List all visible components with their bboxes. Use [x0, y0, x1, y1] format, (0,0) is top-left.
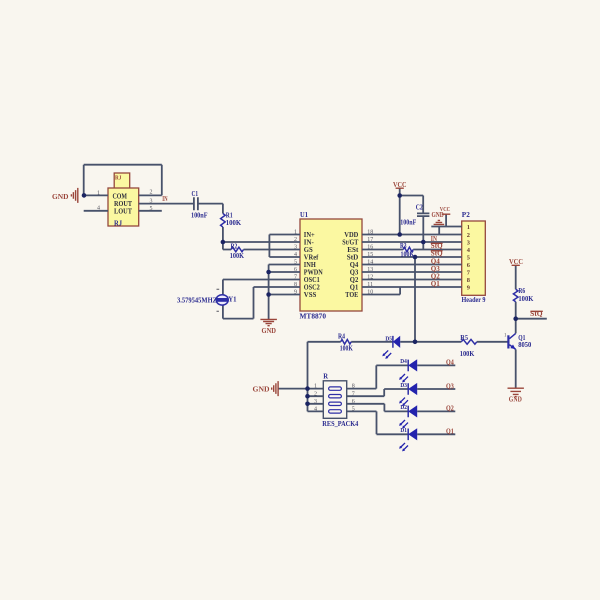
- svg-text:8: 8: [294, 282, 297, 288]
- svg-text:2: 2: [294, 237, 297, 243]
- svg-text:IN-: IN-: [304, 239, 315, 246]
- svg-text:GND: GND: [432, 212, 444, 219]
- svg-text:Q3: Q3: [350, 269, 359, 276]
- svg-text:MT8870: MT8870: [300, 312, 327, 320]
- svg-text:VCC: VCC: [440, 206, 450, 213]
- svg-text:15: 15: [367, 252, 373, 258]
- svg-text:1: 1: [97, 190, 100, 196]
- svg-text:3: 3: [294, 245, 297, 251]
- svg-text:U1: U1: [300, 211, 308, 219]
- svg-text:D5: D5: [385, 335, 392, 342]
- svg-text:6: 6: [294, 267, 297, 273]
- svg-text:TOE: TOE: [345, 292, 358, 299]
- svg-text:Q3: Q3: [431, 266, 441, 273]
- svg-text:ESt: ESt: [347, 247, 359, 254]
- svg-text:Q1: Q1: [350, 284, 359, 291]
- svg-text:Q3: Q3: [446, 383, 454, 390]
- svg-text:2: 2: [314, 391, 317, 397]
- svg-text:2: 2: [467, 232, 470, 239]
- svg-text:9: 9: [294, 290, 297, 296]
- svg-text:5: 5: [150, 206, 153, 212]
- svg-text:D2: D2: [400, 404, 407, 411]
- svg-text:12: 12: [367, 275, 373, 281]
- svg-text:RJ: RJ: [114, 219, 122, 227]
- svg-text:18: 18: [367, 230, 373, 236]
- svg-text:100K: 100K: [518, 296, 534, 303]
- svg-text:8: 8: [352, 384, 355, 390]
- svg-text:St/GT: St/GT: [342, 239, 358, 246]
- svg-text:INH: INH: [304, 262, 317, 269]
- svg-text:StQ: StQ: [431, 251, 443, 258]
- svg-text:StQ: StQ: [431, 243, 443, 250]
- svg-text:4: 4: [314, 407, 317, 413]
- svg-text:16: 16: [367, 245, 373, 251]
- svg-text:IN: IN: [431, 236, 437, 243]
- svg-text:IN: IN: [162, 196, 167, 203]
- svg-text:R4: R4: [338, 334, 346, 341]
- svg-text:VCC: VCC: [393, 181, 407, 189]
- svg-text:GS: GS: [304, 247, 313, 254]
- svg-text:100nF: 100nF: [400, 220, 416, 227]
- svg-text:5: 5: [294, 260, 297, 266]
- svg-text:17: 17: [367, 237, 373, 243]
- svg-text:1: 1: [314, 384, 317, 390]
- svg-text:Q2: Q2: [446, 406, 454, 413]
- svg-text:VSS: VSS: [304, 292, 317, 299]
- svg-text:100K: 100K: [340, 345, 354, 352]
- svg-text:11: 11: [367, 282, 373, 288]
- svg-text:1: 1: [467, 224, 470, 231]
- svg-text:4: 4: [294, 252, 297, 258]
- svg-text:PWDN: PWDN: [304, 269, 323, 276]
- svg-text:C1: C1: [192, 191, 199, 198]
- svg-text:10: 10: [367, 290, 373, 296]
- svg-text:8050: 8050: [518, 341, 531, 349]
- svg-text:5: 5: [352, 407, 355, 413]
- svg-text:13: 13: [367, 267, 373, 273]
- svg-text:2: 2: [150, 190, 153, 196]
- svg-text:OSC1: OSC1: [304, 277, 321, 284]
- svg-text:1: 1: [294, 230, 297, 236]
- svg-text:R5: R5: [460, 335, 468, 342]
- svg-text:D1: D1: [400, 427, 407, 434]
- svg-text:100K: 100K: [230, 253, 245, 260]
- svg-text:3.579545MHZ: 3.579545MHZ: [177, 297, 217, 305]
- svg-text:Q1: Q1: [431, 281, 441, 288]
- svg-text:Q4: Q4: [446, 360, 454, 367]
- svg-text:4: 4: [97, 206, 100, 212]
- svg-text:RJ: RJ: [115, 174, 122, 181]
- svg-text:R3: R3: [400, 243, 407, 250]
- svg-text:100nF: 100nF: [191, 212, 208, 219]
- svg-text:100K: 100K: [460, 351, 475, 358]
- svg-text:3: 3: [314, 399, 317, 405]
- svg-text:R1: R1: [226, 213, 233, 220]
- svg-text:IN+: IN+: [304, 232, 315, 239]
- svg-text:VRef: VRef: [304, 254, 319, 261]
- svg-text:RES_PACK4: RES_PACK4: [322, 420, 358, 428]
- svg-text:Q4: Q4: [431, 258, 441, 265]
- svg-text:StQ: StQ: [530, 311, 542, 318]
- svg-text:GND: GND: [509, 395, 522, 403]
- svg-text:VDD: VDD: [344, 232, 358, 239]
- svg-text:100K: 100K: [226, 220, 242, 227]
- svg-text:Q4: Q4: [350, 262, 359, 269]
- svg-text:R6: R6: [518, 288, 525, 295]
- svg-text:7: 7: [294, 275, 297, 281]
- svg-text:14: 14: [367, 260, 373, 266]
- svg-text:GND: GND: [52, 193, 69, 201]
- svg-text:5: 5: [467, 254, 470, 261]
- svg-text:Y1: Y1: [228, 296, 237, 304]
- svg-text:3: 3: [150, 198, 153, 204]
- svg-text:LOUT: LOUT: [114, 208, 132, 216]
- svg-text:OSC2: OSC2: [304, 284, 321, 291]
- svg-text:D3: D3: [400, 382, 407, 389]
- svg-text:D4: D4: [400, 358, 407, 365]
- svg-text:VCC: VCC: [509, 258, 523, 266]
- svg-text:9: 9: [467, 284, 470, 291]
- svg-text:3: 3: [467, 239, 470, 246]
- svg-text:C2: C2: [416, 205, 424, 212]
- svg-text:7: 7: [352, 391, 355, 397]
- svg-text:6: 6: [352, 399, 355, 405]
- svg-text:Q2: Q2: [350, 277, 359, 284]
- svg-text:Q2: Q2: [431, 273, 441, 280]
- svg-text:8: 8: [467, 277, 470, 284]
- svg-text:Header 9: Header 9: [462, 296, 486, 304]
- svg-text:StD: StD: [347, 254, 359, 261]
- svg-text:Q1: Q1: [446, 429, 454, 436]
- svg-text:R2: R2: [231, 244, 238, 251]
- svg-text:GND: GND: [253, 386, 270, 394]
- svg-text:100K: 100K: [401, 251, 415, 258]
- svg-text:GND: GND: [262, 327, 277, 335]
- svg-text:P2: P2: [462, 211, 471, 219]
